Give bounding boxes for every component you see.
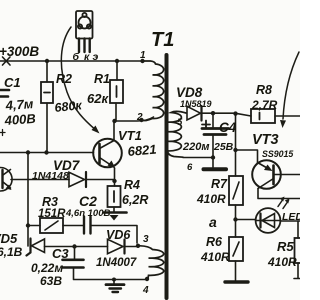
resistor R6	[229, 220, 243, 282]
node 3 junction dot	[136, 244, 140, 248]
svg-text:400В: 400В	[3, 111, 36, 128]
resistor R3	[28, 218, 84, 233]
node a junction dot	[233, 217, 237, 221]
svg-text:R3: R3	[42, 195, 58, 209]
node junction collector/R1	[112, 119, 116, 123]
svg-text:LED2: LED2	[282, 211, 300, 223]
node VT1 emitter junction dot	[112, 179, 116, 183]
transformer T1 core	[165, 55, 169, 298]
svg-text:151R: 151R	[38, 208, 66, 220]
svg-text:R8: R8	[256, 83, 272, 97]
svg-text:б: б	[73, 51, 80, 63]
wire R7 branch vertical	[235, 114, 237, 176]
svg-text:1N4148: 1N4148	[32, 170, 69, 182]
wire VT1 base rail	[0, 152, 94, 154]
svg-text:к: к	[84, 51, 90, 63]
ground below C4	[204, 158, 227, 170]
svg-text:6,1В: 6,1В	[0, 245, 23, 259]
capacitor C4	[202, 113, 229, 157]
svg-text:+300В: +300В	[0, 44, 39, 59]
wire VT3 base to right edge	[275, 174, 301, 176]
diode VD6	[75, 239, 138, 253]
svg-text:62к: 62к	[87, 91, 109, 106]
svg-text:5: 5	[177, 117, 183, 128]
node junction R7 branch top	[233, 111, 237, 115]
wire optocoupler to VD7 to VT1 emitter	[11, 179, 115, 181]
resistor R1	[110, 80, 123, 103]
svg-text:2,7R: 2,7R	[251, 98, 278, 112]
node junction winding 6 wire	[211, 155, 215, 159]
svg-text:680к: 680к	[54, 98, 83, 115]
svg-text:R7: R7	[211, 177, 228, 191]
svg-text:SS9015: SS9015	[262, 149, 293, 159]
node junction top rail at R1	[115, 59, 119, 63]
svg-text:220м: 220м	[182, 141, 210, 153]
transformer T1 primary winding 1-2	[142, 61, 164, 121]
node 2 junction dot	[139, 118, 143, 122]
svg-text:3: 3	[143, 234, 149, 245]
wire vertical to R3 and VD5	[27, 153, 29, 247]
transformer T1 winding 3-4	[140, 246, 164, 279]
svg-text:0,22м: 0,22м	[31, 261, 63, 275]
svg-text:1: 1	[140, 50, 146, 61]
svg-text:1N5819: 1N5819	[180, 99, 212, 109]
LED arrows	[278, 197, 290, 209]
node junction base rail left	[26, 150, 30, 154]
svg-text:410R: 410R	[196, 192, 226, 206]
curved arrow from package to VT1	[61, 27, 99, 134]
svg-text:э: э	[93, 51, 99, 63]
optocoupler phototransistor (left edge)	[0, 167, 12, 191]
node 4 junction dot	[145, 277, 149, 281]
svg-text:R4: R4	[124, 178, 140, 192]
node junction R3 left	[26, 223, 30, 227]
svg-text:VT1: VT1	[118, 128, 142, 143]
svg-text:6,2R: 6,2R	[122, 193, 148, 207]
svg-text:R5: R5	[277, 239, 294, 254]
diode VD7	[69, 172, 86, 187]
node 1 junction dot	[140, 59, 144, 63]
svg-text:63В: 63В	[40, 274, 62, 288]
resistor R2	[41, 82, 53, 103]
wire R2 leads	[46, 61, 48, 152]
node junction VT3 emitter branch	[233, 148, 237, 152]
wire to VT3 emitter	[236, 150, 258, 163]
wire node a to LED	[236, 219, 256, 221]
wire VT3 collector down and right	[258, 189, 300, 199]
svg-text:R1: R1	[94, 72, 110, 86]
svg-text:1N4007: 1N4007	[96, 257, 137, 269]
wire node 2 to transformer	[114, 117, 154, 121]
svg-text:6: 6	[187, 162, 193, 173]
node junction top rail at R2	[45, 59, 49, 63]
svg-text:410R: 410R	[200, 250, 230, 264]
zener diode VD5	[27, 239, 75, 256]
svg-text:VD6: VD6	[106, 228, 131, 242]
LED LED2	[256, 208, 300, 233]
fuse/break X mark on +300V wire	[3, 57, 11, 65]
package legs	[79, 39, 90, 53]
svg-text:VD8: VD8	[176, 85, 203, 100]
svg-text:4,6n 100В: 4,6n 100В	[65, 208, 110, 219]
resistor R4	[108, 186, 121, 207]
diode VD8	[187, 106, 251, 121]
svg-text:а: а	[209, 214, 217, 230]
svg-text:C1: C1	[4, 75, 21, 90]
transistor VT3	[252, 160, 281, 189]
wire +300V top rail	[0, 60, 143, 62]
capacitor C2	[84, 217, 137, 244]
curved arrow top right to VT3	[280, 52, 299, 128]
svg-text:VT3: VT3	[252, 132, 279, 148]
resistor R7	[229, 176, 243, 219]
node junction C4 top	[211, 111, 215, 115]
svg-text:R6: R6	[206, 235, 223, 249]
svg-text:R2: R2	[56, 72, 72, 86]
svg-text:410R: 410R	[267, 255, 297, 269]
capacitor C1 plates	[0, 90, 9, 97]
svg-text:4: 4	[142, 285, 149, 296]
ground below R6	[225, 280, 248, 283]
capacitor C1 polarity plus	[0, 130, 5, 136]
resistor R8	[251, 109, 300, 123]
ground bottom middle	[106, 278, 124, 293]
svg-text:25В: 25В	[213, 141, 234, 153]
wire VT1 collector up	[113, 121, 115, 141]
transistor VT1	[93, 139, 122, 169]
svg-text:VD5: VD5	[0, 231, 18, 246]
transformer T1 winding 5-6	[168, 111, 187, 157]
node junction base rail at R2	[44, 150, 48, 154]
transistor package TO-92 outline	[76, 11, 93, 39]
wire R1 leads	[116, 61, 117, 121]
capacitor C3	[63, 247, 148, 280]
ground below R4	[104, 207, 127, 221]
svg-text:6821: 6821	[127, 142, 157, 159]
svg-text:2: 2	[136, 112, 143, 123]
svg-text:C2: C2	[79, 193, 97, 209]
resistor R5 (right edge)	[294, 221, 306, 279]
svg-text:C4: C4	[219, 120, 237, 135]
wire VT1 emitter down	[114, 168, 116, 186]
wire winding 6 to C4 ground	[183, 157, 213, 159]
node junction C3 top	[72, 244, 76, 248]
svg-text:C3: C3	[52, 246, 69, 261]
svg-text:T1: T1	[151, 29, 174, 51]
